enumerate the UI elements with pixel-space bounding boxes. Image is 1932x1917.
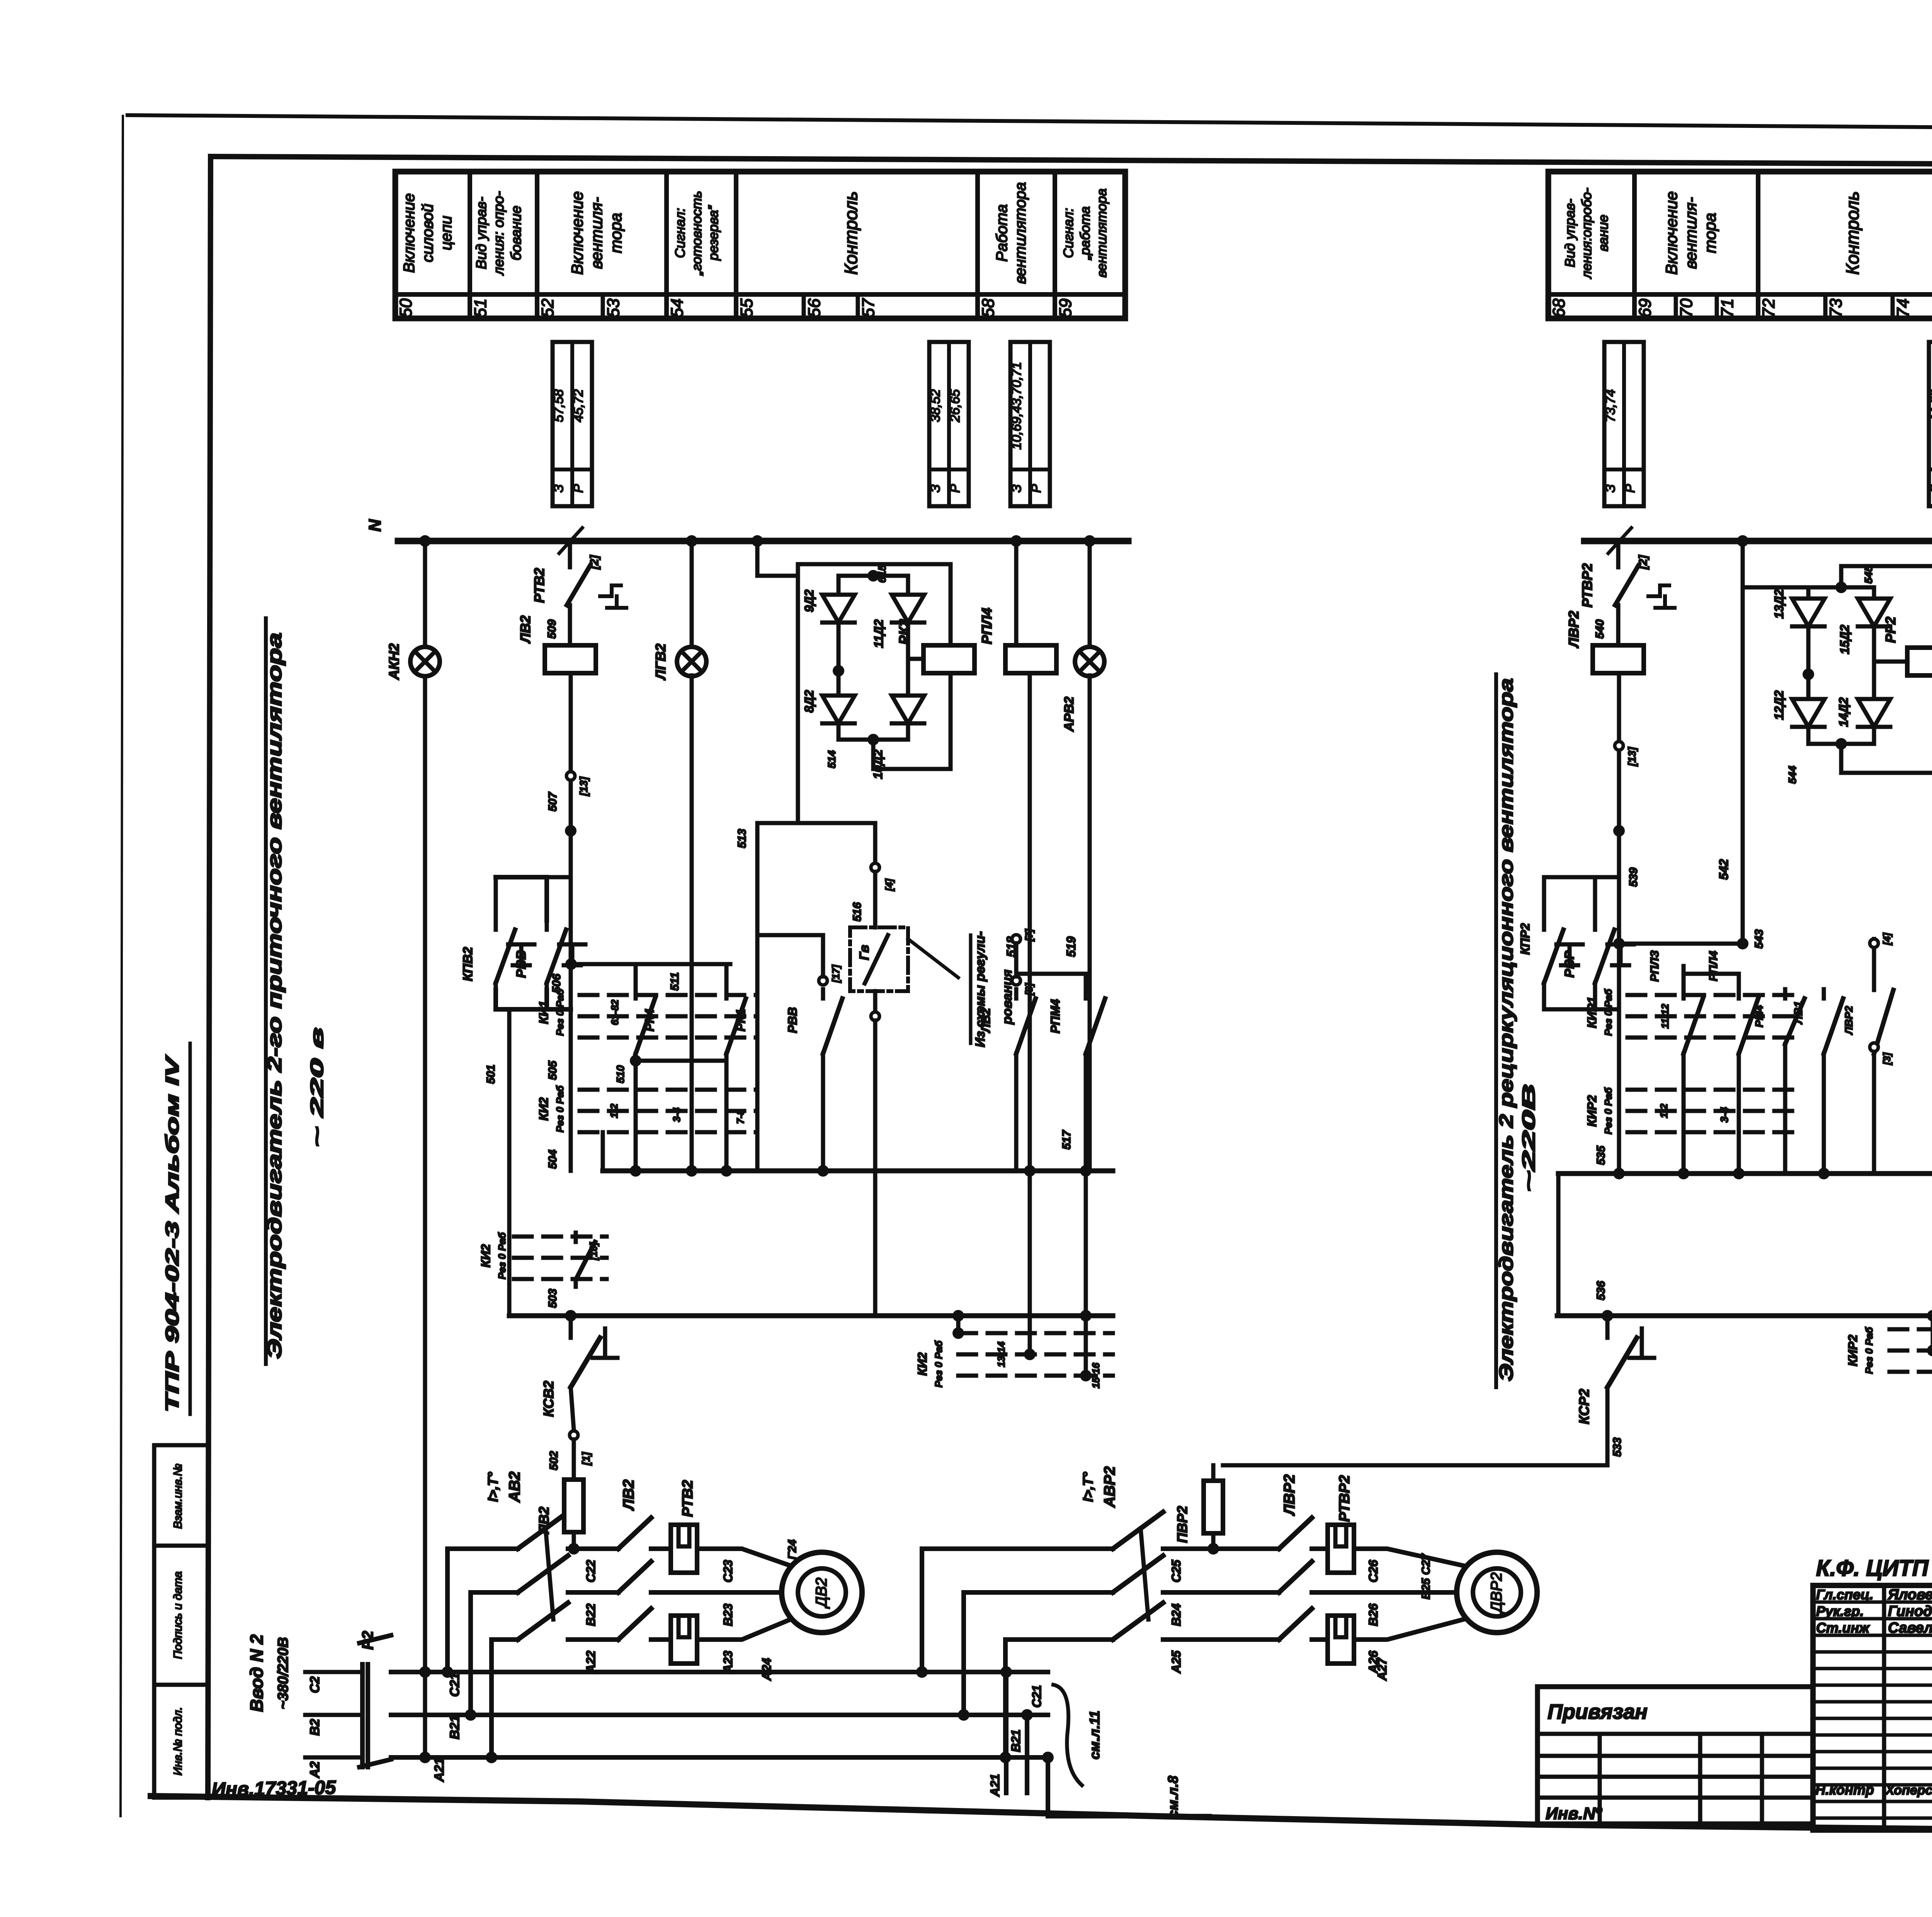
wire N bus left half — [398, 538, 1128, 544]
terminal circle [13] right — [1615, 742, 1623, 750]
svg-text:Н.контр: Н.контр — [1815, 1782, 1874, 1798]
wire 506 jog — [571, 962, 730, 966]
contact РВВ maker — [496, 877, 547, 920]
svg-text:Савелова: Савелова — [1888, 1620, 1932, 1636]
svg-text:С21: С21 — [1030, 1685, 1044, 1708]
svg-text:КСР2: КСР2 — [1576, 1389, 1592, 1424]
svg-text:КИ2: КИ2 — [537, 1097, 551, 1121]
svg-text:К.Ф. ЦИТП инв. 17331-05: К.Ф. ЦИТП инв. 17331-05 — [1816, 1556, 1932, 1581]
selector КИ2 lower row2 — [958, 1331, 1113, 1335]
header table column line — [1632, 172, 1637, 318]
contact РВВ relay — [821, 989, 825, 998]
diode 8Д2 — [822, 696, 855, 723]
svg-text:З: З — [1603, 484, 1618, 492]
svg-text:ЛВР2: ЛВР2 — [1843, 1006, 1855, 1035]
svg-text:1-2: 1-2 — [608, 1104, 620, 1118]
coil РПЛ4 — [1005, 645, 1056, 673]
svg-text:А24: А24 — [760, 1658, 774, 1681]
svg-text:[1]: [1] — [580, 1451, 592, 1466]
wire buttons rejoin — [1544, 990, 1619, 1009]
wire diode bridge feed — [757, 541, 798, 576]
diode 15Д2 — [1858, 599, 1890, 626]
scan paper edge top — [128, 115, 1932, 132]
contact РК1 — [724, 964, 729, 989]
svg-text:509: 509 — [546, 619, 558, 639]
wire 540 — [1616, 613, 1621, 645]
contact РПЛЗ — [1682, 989, 1686, 998]
title underline — [264, 618, 268, 1364]
bus 3037 right half — [1558, 1171, 1932, 1176]
svg-text:502: 502 — [548, 1451, 560, 1470]
svg-text:Р: Р — [1029, 484, 1044, 493]
coil ЛВ2 — [545, 645, 596, 673]
svg-text:Ст.инж: Ст.инж — [1816, 1620, 1870, 1636]
svg-text:11Д2: 11Д2 — [872, 619, 886, 648]
svg-text:АВР2: АВР2 — [1101, 1466, 1118, 1508]
svg-text:73,74: 73,74 — [1603, 389, 1618, 422]
leader line regulation scheme — [908, 939, 958, 978]
wire N bus right half — [1584, 538, 1932, 544]
svg-text:вентиля-: вентиля- — [1682, 197, 1700, 269]
diode 12Д2 — [1792, 699, 1825, 727]
header table outline — [395, 172, 1125, 318]
svg-text:ЛГВ2: ЛГВ2 — [653, 644, 668, 681]
svg-text:РМ4: РМ4 — [1753, 1005, 1765, 1027]
svg-text:52: 52 — [538, 299, 557, 318]
header table column line — [734, 172, 738, 318]
svg-text:69: 69 — [1636, 299, 1655, 318]
svg-text:505: 505 — [546, 1060, 559, 1080]
binding table Привязан — [1537, 1687, 1813, 1824]
svg-text:Работа: Работа — [993, 204, 1010, 262]
svg-text:В23: В23 — [721, 1603, 735, 1626]
svg-text:26,65: 26,65 — [948, 389, 963, 422]
svg-text:Р: Р — [948, 484, 963, 493]
svg-text:Рук.гр.: Рук.гр. — [1816, 1603, 1864, 1619]
svg-text:ЛВ2: ЛВ2 — [620, 1480, 637, 1511]
svg-text:Рез 0 Раб: Рез 0 Раб — [1602, 988, 1614, 1036]
svg-text:ПВ2: ПВ2 — [536, 1507, 552, 1534]
svg-text:КИ2: КИ2 — [479, 1244, 493, 1268]
svg-text:А27: А27 — [1375, 1657, 1389, 1681]
svg-text:[10]: [10] — [588, 1242, 599, 1261]
attribute strip outline — [154, 1445, 208, 1798]
thermal elements РТВР2 — [1328, 1525, 1354, 1573]
motor leads — [1368, 1549, 1469, 1567]
svg-text:А21: А21 — [432, 1758, 447, 1782]
svg-text:ления:опробо-: ления:опробо- — [1579, 188, 1594, 279]
svg-text:513: 513 — [736, 829, 748, 848]
svg-text:[4]: [4] — [883, 878, 895, 891]
motor leads — [723, 1549, 794, 1567]
diode 11Д2 — [892, 595, 924, 623]
header table sub column line — [802, 294, 806, 318]
coil ЛВР2 — [1593, 645, 1644, 673]
svg-text:вентилятора: вентилятора — [1012, 182, 1029, 284]
drawing frame top — [211, 156, 1932, 167]
svg-text:КИ1: КИ1 — [537, 1001, 551, 1024]
lamp ЛГВ2 — [677, 647, 706, 676]
svg-text:РР2: РР2 — [1883, 617, 1898, 643]
svg-text:Гв: Гв — [857, 945, 872, 960]
svg-text:9Д2: 9Д2 — [802, 589, 816, 612]
svg-text:Включение: Включение — [1662, 191, 1680, 275]
svg-text:38,52: 38,52 — [928, 389, 943, 422]
svg-text:В22: В22 — [584, 1603, 598, 1626]
svg-text:535: 535 — [1595, 1145, 1607, 1165]
svg-text:РВВ: РВВ — [514, 950, 529, 978]
svg-text:РК4: РК4 — [643, 1009, 656, 1031]
svg-text:Ввод N 2: Ввод N 2 — [247, 1634, 267, 1712]
motor ДВ2 — [782, 1552, 862, 1633]
drawing frame left — [208, 156, 211, 1798]
wire to sheet 8 — [1048, 1814, 1209, 1818]
reference box — [1010, 342, 1050, 506]
svg-text:В25 С27: В25 С27 — [1420, 1553, 1432, 1599]
svg-text:РТВ2: РТВ2 — [531, 568, 547, 603]
svg-text:Контроль: Контроль — [841, 191, 861, 275]
breaker АВР2 — [1113, 1512, 1163, 1549]
svg-text:Сигнал:: Сигнал: — [673, 208, 688, 258]
contact РТВР2 thermal NC — [1616, 541, 1621, 560]
button КПВ2 — [494, 920, 498, 930]
svg-text:КПВ2: КПВ2 — [461, 947, 475, 981]
svg-text:507: 507 — [546, 792, 559, 811]
svg-text:[4]: [4] — [1881, 932, 1893, 946]
node mid left — [833, 665, 844, 677]
wire РПЛ4 to N bus — [1014, 541, 1019, 645]
svg-text:~ 220 в: ~ 220 в — [307, 1027, 327, 1147]
header table sub column line — [1674, 294, 1678, 318]
svg-text:[3]: [3] — [1881, 1052, 1893, 1065]
header table sub column line — [1891, 294, 1895, 318]
header table sub column line — [856, 294, 860, 318]
wire branch to buttons — [496, 877, 571, 920]
signature table rows — [1813, 1601, 1932, 1604]
reference box А21 В21 С21 см.л.11 — [1004, 1672, 1009, 1793]
svg-text:51: 51 — [471, 299, 490, 318]
node 510 link — [636, 1059, 726, 1063]
svg-text:57: 57 — [859, 298, 878, 317]
signature table outline — [1813, 1585, 1932, 1830]
header table sub column line — [1823, 294, 1828, 318]
svg-text:N: N — [366, 519, 384, 532]
wire 518 — [1028, 673, 1032, 1171]
button РВР — [1544, 877, 1595, 920]
header table number row line — [395, 292, 1125, 297]
header table outline — [1548, 172, 1932, 318]
bridge bottom bar 544 — [1806, 727, 1811, 744]
node 515 — [798, 564, 951, 576]
selector КИ2 lower dashes — [514, 1235, 607, 1239]
lamp АКН2 — [410, 647, 440, 676]
attribute strip divider 1 — [154, 1544, 208, 1548]
power bus В21 line — [391, 1713, 1048, 1717]
header table column line — [1053, 172, 1057, 318]
switch Гв dash-dot box — [850, 927, 908, 991]
svg-text:Сигнал:: Сигнал: — [1061, 208, 1076, 258]
bus 3405 right half — [1557, 1313, 1932, 1318]
wire 2442 link — [1619, 942, 1743, 946]
svg-text:Рез 0 Раб: Рез 0 Раб — [1602, 1087, 1614, 1134]
mid bar to coil РК2 — [908, 657, 923, 661]
svg-text:Контроль: Контроль — [1842, 191, 1862, 275]
svg-text:В2: В2 — [308, 1719, 322, 1736]
svg-text:С26: С26 — [1366, 1560, 1380, 1582]
selector КИР2 lower dashes — [1889, 1327, 1932, 1332]
header table column line — [664, 172, 669, 318]
svg-text:~220В: ~220В — [1519, 1084, 1539, 1192]
wire 507 below coil ЛВ2 — [569, 673, 573, 1171]
svg-text:РТВР2: РТВР2 — [1337, 1475, 1353, 1522]
button КПР2 — [1542, 920, 1546, 930]
svg-text:3-4: 3-4 — [1718, 1107, 1730, 1123]
svg-text:А22: А22 — [584, 1650, 598, 1674]
svg-text:44,69: 44,69 — [1928, 389, 1932, 422]
svg-text:514: 514 — [826, 750, 838, 768]
svg-text:Гинодман: Гинодман — [1888, 1603, 1932, 1619]
svg-text:[13]: [13] — [1626, 746, 1638, 766]
rail link right ends — [1556, 1174, 1561, 1316]
coil РК2 — [923, 645, 975, 673]
svg-text:КИР2: КИР2 — [1846, 1335, 1860, 1366]
svg-text:71: 71 — [1718, 299, 1737, 318]
breaker АВ2 taps — [445, 1549, 450, 1672]
svg-text:12Д2: 12Д2 — [1772, 691, 1786, 720]
svg-text:В26: В26 — [1366, 1603, 1380, 1626]
svg-text:Рез 0 Раб: Рез 0 Раб — [554, 1085, 566, 1132]
svg-text:„готовность: „готовность — [689, 191, 704, 276]
fuse ПВР2 — [1211, 1465, 1216, 1549]
selector КИР2 upper dashes — [1628, 1088, 1801, 1092]
svg-text:„работа: „работа — [1078, 206, 1093, 260]
thermal elements РТВ2 — [671, 1525, 697, 1573]
loop vertical right of bridge — [949, 564, 953, 769]
terminal [7] upper — [1012, 935, 1020, 943]
svg-text:542: 542 — [1717, 859, 1731, 880]
svg-text:57,58: 57,58 — [551, 389, 566, 422]
svg-text:Взам.инв.№: Взам.инв.№ — [172, 1464, 184, 1529]
svg-text:АРВ2: АРВ2 — [1062, 697, 1077, 732]
slash on N bus at РТВР2 tap — [1608, 528, 1631, 553]
svg-text:РТВР2: РТВР2 — [1579, 563, 1595, 608]
svg-text:З: З — [928, 484, 943, 492]
terminal circle 516 top — [871, 863, 879, 872]
svg-text:Г24: Г24 — [786, 1539, 799, 1560]
wire 516 column — [873, 823, 878, 863]
svg-text:I>,T°: I>,T° — [1080, 1472, 1096, 1502]
bridge mid wires — [837, 623, 841, 696]
terminal [17] — [819, 976, 827, 985]
header table column line — [535, 172, 539, 318]
signature table columns — [1882, 1585, 1886, 1830]
wire 516 lower — [873, 872, 878, 927]
svg-text:[7]: [7] — [1023, 929, 1035, 942]
svg-text:13Д2: 13Д2 — [1772, 589, 1786, 619]
reference box — [553, 342, 592, 506]
svg-text:В21: В21 — [1009, 1730, 1023, 1752]
svg-text:А21: А21 — [988, 1774, 1002, 1797]
svg-text:РПМ4: РПМ4 — [1048, 999, 1062, 1033]
svg-text:АВ2: АВ2 — [506, 1471, 523, 1503]
svg-text:61-82: 61-82 — [609, 999, 621, 1025]
svg-text:8Д2: 8Д2 — [802, 690, 816, 713]
svg-text:536: 536 — [1595, 1281, 1607, 1300]
bus 3405 left half — [509, 1313, 1113, 1318]
svg-text:72: 72 — [1759, 299, 1778, 318]
svg-text:54: 54 — [668, 299, 687, 318]
reference box — [929, 342, 969, 506]
reference box — [1604, 342, 1644, 506]
junction 507 node — [565, 825, 577, 837]
svg-text:511: 511 — [668, 972, 681, 991]
note underline — [969, 935, 973, 1043]
title underline right — [1494, 674, 1498, 1387]
svg-text:Р: Р — [571, 484, 586, 493]
selector КИР1 dashes — [1628, 993, 1801, 997]
terminal circle [13] — [566, 772, 575, 780]
svg-text:А25: А25 — [1169, 1650, 1183, 1674]
svg-text:ЛВ1: ЛВ1 — [1792, 1001, 1805, 1025]
wire lamp ЛГВ2 branch — [690, 541, 694, 647]
svg-text:519: 519 — [1064, 936, 1078, 957]
wire 502 — [571, 1387, 574, 1430]
svg-text:501: 501 — [485, 1065, 497, 1084]
svg-text:КПР2: КПР2 — [1518, 923, 1532, 955]
switch КСВ2 — [569, 1316, 573, 1338]
svg-text:ДВР2: ДВР2 — [1488, 1572, 1505, 1614]
svg-text:тора: тора — [607, 213, 625, 253]
svg-text:вентилятора: вентилятора — [1094, 189, 1109, 277]
svg-text:КИР1: КИР1 — [1585, 997, 1599, 1028]
scan paper edge left — [121, 116, 123, 1816]
svg-text:517: 517 — [1060, 1130, 1073, 1150]
svg-text:13-14: 13-14 — [995, 1341, 1007, 1367]
svg-text:КСВ2: КСВ2 — [541, 1381, 556, 1417]
svg-text:ления: опро-: ления: опро- — [491, 191, 507, 276]
node 545 — [1841, 566, 1932, 587]
svg-text:В24: В24 — [1169, 1603, 1183, 1626]
svg-text:10,69,43,70,71: 10,69,43,70,71 — [1009, 362, 1024, 450]
svg-text:45,72: 45,72 — [571, 389, 586, 422]
svg-text:бование: бование — [508, 206, 524, 260]
svg-text:Привязан: Привязан — [1548, 1700, 1648, 1723]
svg-text:3-4: 3-4 — [671, 1107, 682, 1122]
svg-text:516: 516 — [851, 902, 864, 922]
contact РПЛ4 right — [1737, 989, 1741, 998]
mid bar to coil РР2 — [1874, 660, 1907, 664]
wire rail below coil ЛВР2 — [1617, 673, 1621, 1174]
wire 513 to bus — [755, 989, 760, 1171]
terminal circle (1) — [570, 1431, 578, 1439]
wire 517 — [1084, 1171, 1088, 1316]
contact РТВ2 thermal NC — [567, 541, 626, 613]
svg-text:С23: С23 — [721, 1560, 735, 1582]
contactor ЛВР2 contacts — [1169, 1546, 1279, 1551]
svg-text:АКН2: АКН2 — [386, 643, 402, 680]
svg-text:Хоперсткова: Хоперсткова — [1885, 1783, 1932, 1798]
diode 14Д2 — [1858, 699, 1890, 727]
svg-text:533: 533 — [1611, 1437, 1624, 1457]
terminal [3] — [1012, 976, 1020, 985]
svg-text:цепи: цепи — [438, 216, 455, 250]
coil РР2 — [1907, 648, 1932, 675]
svg-text:[13]: [13] — [578, 776, 590, 796]
svg-text:А2: А2 — [308, 1761, 322, 1779]
svg-text:вание: вание — [1596, 214, 1611, 251]
switch КСР2 — [1605, 1316, 1610, 1338]
rail 503 left — [507, 1009, 512, 1316]
contact ЛВ1 — [1822, 989, 1826, 998]
header table column line — [1756, 172, 1760, 318]
svg-text:504: 504 — [546, 1150, 559, 1169]
contact РК4 — [634, 964, 638, 989]
svg-text:З: З — [1009, 484, 1024, 492]
svg-text:В21: В21 — [447, 1715, 462, 1739]
svg-text:Инв.№ подл.: Инв.№ подл. — [172, 1707, 184, 1776]
wire branch to КПР2 buttons — [1544, 877, 1619, 920]
svg-text:74: 74 — [1894, 299, 1913, 318]
header table number row line — [1548, 292, 1932, 297]
svg-text:РПЛ4: РПЛ4 — [1707, 951, 1720, 981]
power bus А21 line — [391, 1755, 1048, 1760]
svg-text:А23: А23 — [721, 1650, 735, 1674]
svg-text:11-12: 11-12 — [1659, 1004, 1671, 1029]
svg-text:С25: С25 — [1169, 1559, 1183, 1582]
svg-text:I>,T°: I>,T° — [485, 1472, 501, 1502]
svg-text:15-16: 15-16 — [1090, 1362, 1102, 1388]
disconnect switch Р2 — [305, 1670, 359, 1674]
svg-text:50: 50 — [396, 298, 415, 317]
svg-text:73: 73 — [1827, 298, 1845, 317]
bus 3030 left half — [603, 1169, 1113, 1174]
svg-text:РК2: РК2 — [896, 619, 912, 645]
svg-text:Подпись и дата: Подпись и дата — [172, 1572, 184, 1659]
svg-text:Гл.спец.: Гл.спец. — [1816, 1587, 1873, 1602]
reference box — [1929, 342, 1932, 506]
wire lamp АКН2 branch — [423, 541, 427, 647]
svg-text:КИ2: КИ2 — [915, 1352, 929, 1376]
bridge top bar right — [1808, 585, 1874, 590]
svg-text:РПЛ4: РПЛ4 — [979, 608, 995, 645]
contact РПМ4 aux — [1084, 989, 1088, 998]
svg-text:ДВ2: ДВ2 — [813, 1577, 830, 1609]
svg-text:Рез 0 Раб: Рез 0 Раб — [496, 1232, 508, 1279]
attribute strip divider 2 — [154, 1683, 208, 1687]
switch Гв blade — [865, 935, 888, 983]
wire bridge to bus branch 513 — [757, 576, 798, 989]
selector КИ1 dashed row — [580, 993, 757, 997]
fuse wire tap — [568, 1543, 580, 1555]
svg-text:ПВР2: ПВР2 — [1174, 1506, 1190, 1543]
svg-text:РК1: РК1 — [734, 1009, 748, 1032]
svg-text:см.л.11: см.л.11 — [1087, 1711, 1102, 1759]
svg-text:[2]: [2] — [588, 555, 601, 570]
svg-text:545: 545 — [1862, 565, 1874, 583]
svg-text:[17]: [17] — [830, 964, 842, 983]
wire 519 — [1088, 675, 1092, 1171]
svg-text:ЛВР2: ЛВР2 — [1281, 1474, 1298, 1516]
header table sub column line — [601, 294, 605, 318]
svg-text:503: 503 — [546, 1289, 559, 1308]
margin underline ТПР — [189, 1043, 192, 1414]
contact ПМ2 — [574, 1233, 578, 1242]
svg-text:Рез 0 Раб: Рез 0 Раб — [554, 988, 566, 1036]
svg-text:С22: С22 — [584, 1560, 598, 1582]
wire 509 — [568, 613, 572, 645]
svg-text:15Д2: 15Д2 — [1838, 625, 1852, 655]
svg-text:544: 544 — [1786, 765, 1798, 784]
